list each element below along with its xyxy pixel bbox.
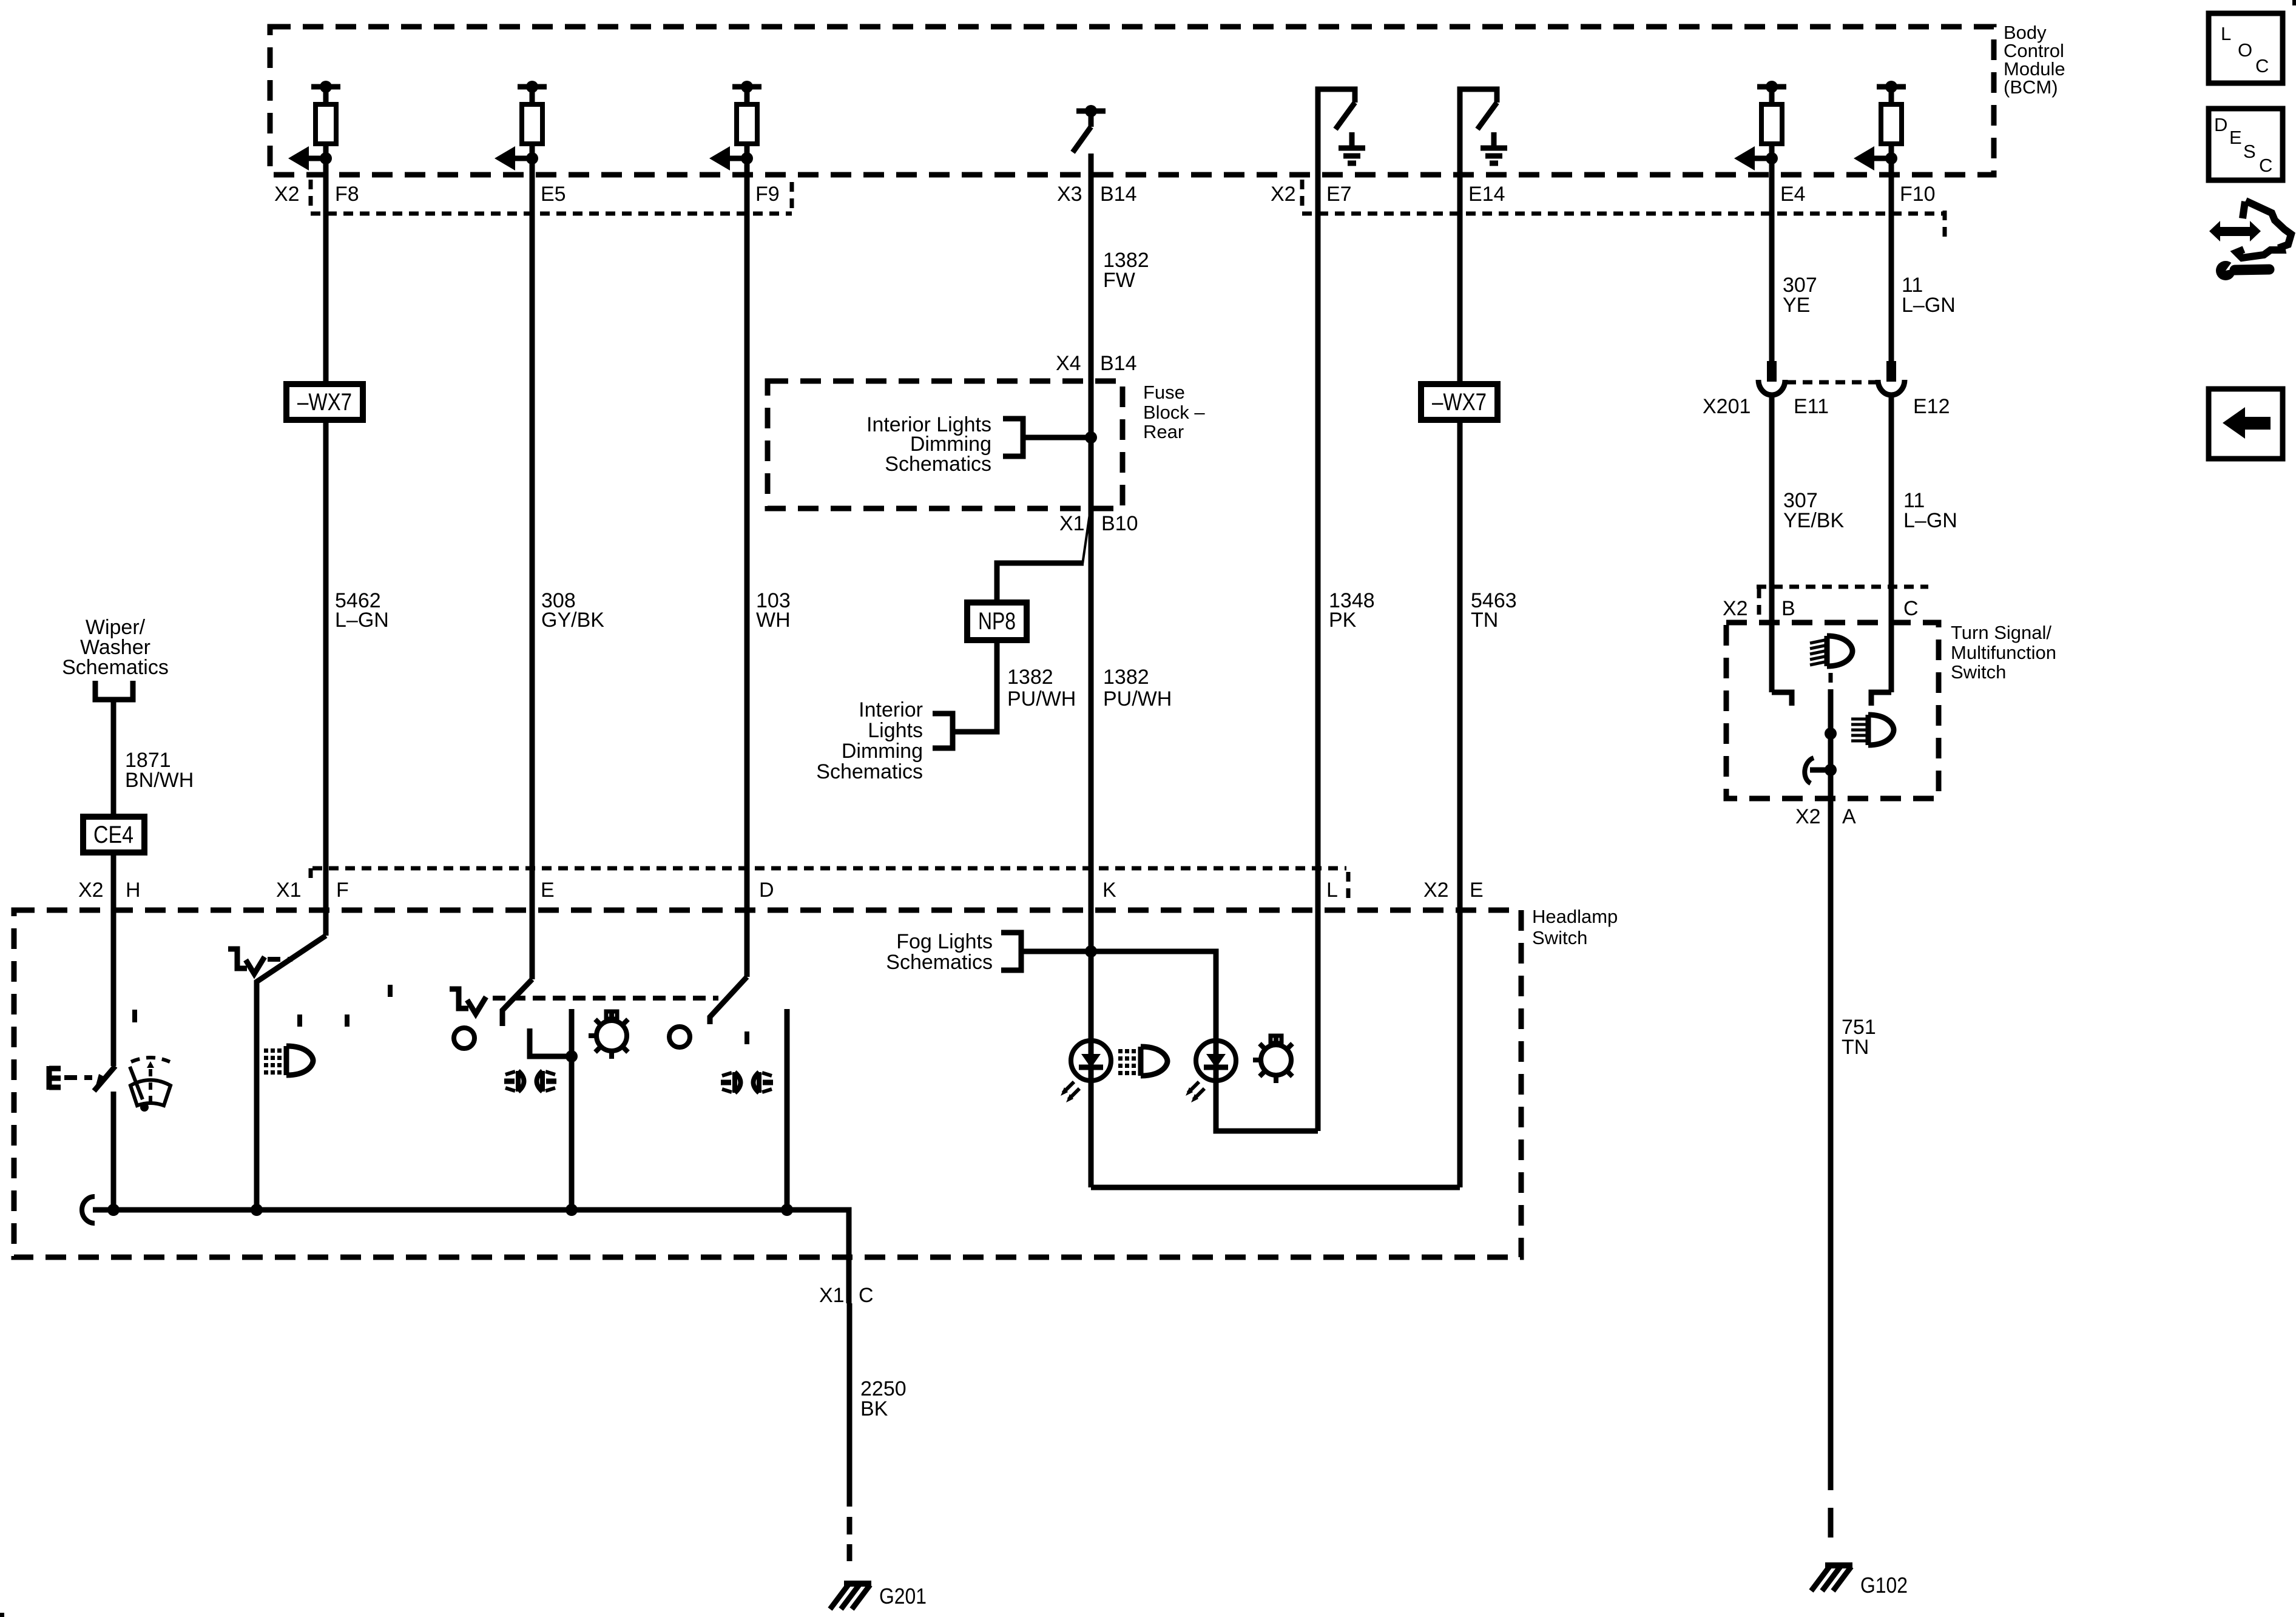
svg-text:PU/WH: PU/WH — [1103, 687, 1172, 711]
svg-text:1382: 1382 — [1007, 666, 1053, 689]
connector X2 fine-dash line (left) — [311, 212, 792, 216]
mech dash above center contact — [1829, 673, 1833, 686]
svg-text:H: H — [126, 879, 141, 902]
svg-text:X201: X201 — [1703, 395, 1751, 418]
page corner mark top right — [2292, 0, 2296, 5]
junction dot bus H — [107, 1204, 120, 1216]
LOC sidebar box — [2209, 13, 2283, 83]
splice pack -WX7 (left) — [286, 384, 363, 420]
mech dash a — [388, 985, 393, 997]
wire 307 YE/BK down to turn signal switch — [1769, 394, 1775, 692]
connector X2 tick (turn signal) — [1757, 589, 1761, 615]
svg-text:BK: BK — [860, 1397, 888, 1420]
repair icon arrow+wrench — [2209, 201, 2291, 280]
svg-text:Rear: Rear — [1143, 421, 1184, 442]
svg-text:E: E — [1470, 879, 1484, 902]
svg-text:X4: X4 — [1056, 352, 1081, 375]
junction dot bus D-riser — [781, 1204, 793, 1216]
svg-text:Interior: Interior — [859, 698, 923, 721]
parking lamp icon — [264, 1046, 313, 1075]
svg-text:B14: B14 — [1100, 183, 1137, 206]
svg-text:L–GN: L–GN — [1903, 509, 1957, 532]
svg-text:E14: E14 — [1468, 183, 1505, 206]
svg-text:B: B — [1781, 597, 1795, 620]
ground switch E7 inside BCM — [1318, 89, 1365, 175]
svg-text:F10: F10 — [1900, 183, 1936, 206]
svg-text:Schematics: Schematics — [62, 656, 169, 679]
riser wire to bus (switch D) — [785, 1009, 790, 1210]
flash-to-pass contact curve — [1805, 758, 1814, 783]
svg-text:E4: E4 — [1780, 183, 1806, 206]
fuse driver output E4 (BCM) — [1734, 81, 1786, 175]
fog lights wire to LED2 corner — [1021, 951, 1318, 1131]
bus left curl — [82, 1197, 95, 1223]
svg-text:X2: X2 — [78, 879, 104, 902]
back-arrow sidebar box — [2209, 389, 2283, 459]
svg-text:1382: 1382 — [1103, 666, 1149, 689]
svg-text:Fuse: Fuse — [1143, 382, 1185, 403]
connector X2 tick at E7 — [1300, 180, 1305, 209]
wire F8 to -WX7 — [323, 175, 329, 384]
low beam lamp icon (left) — [504, 1071, 556, 1092]
svg-text:C: C — [2255, 55, 2269, 76]
svg-text:PU/WH: PU/WH — [1007, 687, 1076, 711]
wiper switch blade barb — [95, 1074, 105, 1090]
svg-text:FW: FW — [1103, 269, 1135, 292]
wire 308 GY/BK E5 down — [530, 175, 535, 979]
bracket to Interior Lights Dimming (upper) — [1003, 419, 1023, 456]
DESC sidebar box — [2209, 109, 2283, 180]
low beam icon — [1851, 715, 1894, 745]
svg-text:GY/BK: GY/BK — [541, 609, 604, 632]
svg-text:TN: TN — [1842, 1036, 1869, 1059]
bracket below wiper/washer text — [95, 681, 133, 700]
ground G201 — [830, 1584, 927, 1609]
svg-text:L–GN: L–GN — [1902, 294, 1956, 317]
Headlamp Switch dashed box — [14, 910, 1521, 1257]
svg-text:YE/BK: YE/BK — [1783, 509, 1844, 532]
svg-text:L: L — [1326, 879, 1338, 902]
svg-text:B14: B14 — [1100, 352, 1137, 375]
svg-text:C: C — [1903, 597, 1919, 620]
svg-text:–WX7: –WX7 — [297, 389, 352, 416]
pivot icon switch E — [450, 989, 486, 1014]
LED indicator 1 — [1061, 1041, 1111, 1102]
svg-text:X1: X1 — [276, 879, 302, 902]
wire H lower to bus — [111, 1092, 116, 1210]
wire 307 YE E4 down to X201 — [1769, 175, 1775, 364]
high beam icon — [1810, 636, 1852, 666]
wire 1382 FW X3-B14 down to fuse block — [1089, 154, 1094, 381]
inline connector X201 terminal E12 — [1878, 361, 1905, 395]
wire dash to G102 — [1828, 1508, 1834, 1538]
svg-text:O: O — [2238, 39, 2252, 61]
svg-text:Dimming: Dimming — [842, 740, 923, 763]
svg-text:C: C — [2259, 155, 2272, 176]
svg-text:Headlamp: Headlamp — [1532, 906, 1618, 927]
connector X201 fine-dash line — [1786, 380, 1877, 385]
svg-text:E5: E5 — [541, 183, 566, 206]
switch X3-B14 inside BCM — [1073, 105, 1106, 152]
svg-text:Schematics: Schematics — [816, 760, 923, 783]
connector X2 fine-dash (turn signal) — [1757, 585, 1928, 589]
pivot icon switch F — [228, 949, 265, 974]
connector X1 tick — [309, 868, 313, 885]
svg-text:CE4: CE4 — [93, 822, 133, 848]
svg-text:B10: B10 — [1101, 512, 1138, 535]
svg-text:G201: G201 — [879, 1584, 927, 1609]
svg-text:F9: F9 — [755, 183, 780, 206]
svg-text:(BCM): (BCM) — [2004, 76, 2058, 98]
switch blade E — [502, 979, 532, 1026]
ground switch E14 inside BCM — [1460, 89, 1507, 175]
svg-text:Lights: Lights — [868, 719, 923, 742]
wire 2250 BK down — [847, 1303, 853, 1507]
wire C contact inside switch — [1871, 692, 1891, 706]
svg-text:X1: X1 — [1059, 512, 1085, 535]
junction dot flash-to-pass — [1825, 764, 1837, 776]
svg-text:–WX7: –WX7 — [1432, 389, 1487, 416]
svg-text:X2: X2 — [1423, 879, 1449, 902]
wire dashes to G201 — [847, 1517, 853, 1534]
wire B contact inside switch — [1772, 692, 1792, 706]
svg-text:S: S — [2243, 141, 2256, 162]
svg-text:D: D — [2214, 114, 2227, 135]
svg-text:Schematics: Schematics — [886, 951, 993, 974]
mech dash b — [297, 1014, 302, 1027]
LED indicator 2 — [1186, 1041, 1236, 1102]
svg-text:L: L — [2221, 23, 2231, 44]
ground G102 — [1811, 1565, 1908, 1598]
svg-text:TN: TN — [1471, 609, 1498, 632]
wire from bracket to B14 — [1023, 435, 1091, 441]
wiper switch dashes — [64, 1075, 92, 1080]
wire below NP8 — [953, 640, 997, 732]
svg-text:E: E — [541, 879, 555, 902]
svg-text:K: K — [1102, 879, 1116, 902]
wiper washer icon — [130, 1058, 171, 1112]
wire E14 to -WX7 right — [1457, 175, 1463, 384]
wire 1382 PU/WH main down to headlamp pin K — [1089, 508, 1094, 1187]
junction dot bus F — [251, 1204, 263, 1216]
wire K/E bottom horizontal — [1091, 1185, 1460, 1190]
mech dash right of pivot F — [268, 957, 292, 962]
svg-text:L–GN: L–GN — [335, 609, 389, 632]
mech dash d (near wiper) — [132, 1010, 137, 1025]
Fuse Block - Rear dashed box — [768, 381, 1123, 508]
svg-text:Schematics: Schematics — [885, 453, 991, 476]
option code NP8 box — [967, 603, 1027, 640]
svg-text:D: D — [759, 879, 774, 902]
bracket to Interior Lights Dimming (lower) — [933, 714, 953, 748]
mech fine-dash line to switch D — [493, 996, 718, 1001]
svg-text:Switch: Switch — [1951, 661, 2006, 683]
connector tick right of L — [1346, 872, 1351, 898]
center wire of turn signal switch — [1828, 689, 1834, 1490]
svg-text:YE: YE — [1783, 294, 1810, 317]
flash-to-pass contact bar — [1810, 768, 1831, 773]
svg-text:E11: E11 — [1794, 395, 1829, 418]
splice pack -WX7 (right) — [1421, 384, 1497, 420]
svg-text:G102: G102 — [1860, 1573, 1908, 1598]
contact circle switch E — [454, 1028, 474, 1048]
contact circle switch D — [669, 1027, 690, 1047]
svg-text:X2: X2 — [1271, 183, 1296, 206]
svg-text:E7: E7 — [1326, 183, 1352, 206]
wiper switch blade — [94, 1066, 115, 1091]
svg-text:WH: WH — [756, 609, 791, 632]
svg-text:A: A — [1842, 805, 1856, 828]
wire 5463 TN down to headlamp pin X2-E — [1457, 420, 1463, 1187]
wire 103 WH F9 down — [745, 175, 750, 977]
junction dot on center wire — [1825, 727, 1837, 740]
wire B14 inside fuse block — [1089, 381, 1094, 508]
wire 1871 BN/WH — [111, 700, 116, 817]
junction dot bus E-riser — [566, 1204, 578, 1216]
svg-text:X2: X2 — [1795, 805, 1821, 828]
svg-text:C: C — [859, 1284, 874, 1307]
svg-text:X1: X1 — [819, 1284, 845, 1307]
connector tick right of F9 — [790, 182, 794, 209]
mech dash c — [345, 1014, 349, 1027]
contact stub and riser switch E — [530, 1028, 572, 1056]
jog wire from B10 to NP8 branch — [1082, 510, 1090, 564]
connector X2 fine-dash line (right) — [1302, 212, 1945, 216]
fuse driver output F8 (BCM) — [288, 81, 340, 175]
dome lamp icon — [589, 1011, 628, 1059]
wire 1348 PK E7 down to headlamp pin L — [1315, 175, 1321, 1131]
svg-text:Fog Lights: Fog Lights — [896, 930, 993, 953]
wire 11 L-GN down to turn signal switch — [1889, 394, 1894, 692]
connector tick right of F10 — [1943, 211, 1947, 238]
junction dot on B14 at bracket — [1085, 431, 1097, 444]
connector X2 tick at F8 — [309, 180, 313, 209]
svg-text:BN/WH: BN/WH — [125, 769, 194, 792]
svg-text:E12: E12 — [1913, 395, 1950, 418]
mech dash below blade D — [745, 1031, 749, 1045]
page corner mark bottom left — [0, 1613, 4, 1617]
inline connector X201 terminal E11 — [1758, 361, 1785, 395]
fuse driver output E5 (BCM) — [495, 81, 547, 175]
svg-text:PK: PK — [1329, 609, 1357, 632]
wiper switch E contact — [49, 1066, 61, 1090]
svg-text:Switch: Switch — [1532, 927, 1587, 948]
svg-text:E: E — [2229, 127, 2242, 148]
Turn Signal/Multifunction Switch dashed box — [1726, 623, 1939, 798]
svg-text:Block –: Block – — [1143, 402, 1205, 423]
svg-text:Turn Signal/: Turn Signal/ — [1951, 622, 2051, 643]
connector X1 fine-dash line (headlamp switch) — [312, 866, 1346, 871]
fuse driver output F9 (BCM) — [709, 81, 761, 175]
svg-text:NP8: NP8 — [978, 608, 1016, 635]
Body Control Module (BCM) dashed box — [270, 27, 1994, 175]
svg-text:Multifunction: Multifunction — [1951, 642, 2056, 663]
junction dot fog wire at wire K — [1085, 945, 1097, 957]
wire 1871 BN/WH pin H upper — [111, 852, 116, 1066]
svg-text:X2: X2 — [1723, 597, 1748, 620]
low beam lamp icon (right) — [721, 1072, 773, 1093]
junction dot riser E — [566, 1050, 578, 1062]
svg-text:F: F — [336, 879, 349, 902]
bracket to Fog Lights Schematics — [1001, 933, 1021, 970]
fog lamp icon (right) — [1118, 1047, 1167, 1076]
wire 5462 L-GN down to headlamp switch — [323, 420, 329, 936]
riser wire to bus (switch E) — [569, 1009, 575, 1210]
panel lamp icon — [1253, 1036, 1292, 1083]
ground bus inside headlamp switch — [93, 1210, 849, 1303]
branch wire to NP8 — [997, 563, 1084, 603]
svg-text:X3: X3 — [1057, 183, 1082, 206]
switch blade F — [257, 936, 326, 1210]
splice CE4 box — [83, 817, 144, 852]
switch blade D — [710, 977, 747, 1024]
svg-text:X2: X2 — [274, 183, 300, 206]
fuse driver output F10 (BCM) — [1854, 81, 1906, 175]
svg-text:F8: F8 — [335, 183, 359, 206]
wire 11 L-GN F10 down to X201 — [1889, 175, 1894, 364]
